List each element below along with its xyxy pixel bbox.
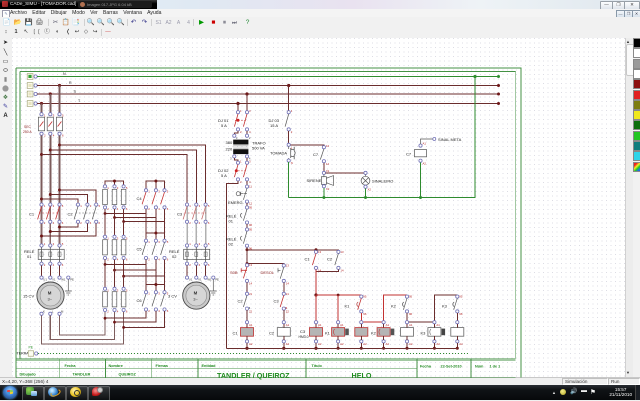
sheet frame outer border bbox=[16, 68, 521, 378]
svg-text:6: 6 bbox=[126, 207, 128, 211]
svg-text:1: 1 bbox=[44, 114, 46, 118]
node branch to C3 bank line c bbox=[40, 153, 43, 156]
resistor R1b bbox=[112, 185, 119, 211]
motor M1 PE terminal bbox=[65, 276, 74, 295]
svg-text:5 A: 5 A bbox=[221, 173, 227, 178]
svg-text:M: M bbox=[61, 309, 64, 313]
svg-text:13: 13 bbox=[249, 263, 253, 267]
wire neutral return green bbox=[289, 77, 475, 198]
svg-text:A1: A1 bbox=[409, 323, 413, 327]
svg-text:3: 3 bbox=[230, 157, 232, 161]
svg-text:500 VA: 500 VA bbox=[252, 146, 265, 151]
wire RELE01 to RELE02 contact bbox=[246, 224, 248, 228]
svg-text:EMERG.: EMERG. bbox=[228, 200, 244, 205]
svg-text:13: 13 bbox=[340, 250, 344, 254]
title block table frame bbox=[16, 359, 516, 378]
svg-text:HELO: HELO bbox=[352, 371, 372, 380]
svg-text:3: 3 bbox=[249, 109, 251, 113]
coil C7 timer bbox=[406, 142, 427, 166]
wire DJ02 right pole down bbox=[246, 181, 248, 185]
svg-text:N: N bbox=[63, 72, 66, 76]
svg-text:QUEIROZ: QUEIROZ bbox=[119, 372, 137, 376]
thermal overload relay RELE 01 bbox=[24, 242, 64, 267]
svg-text:A2: A2 bbox=[386, 342, 390, 346]
svg-text:Título: Título bbox=[312, 364, 323, 368]
rotor resistor bank 1 star bar bbox=[105, 180, 124, 187]
svg-text:PE: PE bbox=[215, 278, 219, 282]
resistor R1c bbox=[121, 185, 128, 211]
svg-text:1: 1 bbox=[107, 186, 109, 190]
contactor C4 star bar bbox=[146, 180, 165, 189]
wire DJ01 to trafo primary bbox=[234, 131, 247, 134]
svg-text:1: 1 bbox=[44, 242, 46, 246]
svg-text:A2: A2 bbox=[286, 342, 290, 346]
wire S to DJ01 pole2 bbox=[246, 94, 248, 111]
menu bar bbox=[0, 9, 640, 19]
node C7 coil neutral bbox=[419, 196, 422, 199]
svg-text:A1: A1 bbox=[423, 142, 427, 146]
wire drop to timer K1 coil bbox=[337, 295, 339, 321]
node rotor riser c bbox=[122, 326, 125, 329]
resistor R3c bbox=[121, 287, 128, 313]
svg-text:K1: K1 bbox=[325, 331, 331, 336]
wire holding branch to C1 aux bbox=[247, 249, 316, 251]
wire RELE01 to motor M1 bbox=[42, 265, 60, 276]
svg-text:6: 6 bbox=[126, 310, 128, 314]
svg-text:5: 5 bbox=[126, 236, 128, 240]
svg-text:01: 01 bbox=[229, 219, 234, 224]
svg-text:3: 3 bbox=[53, 242, 55, 246]
wire C7 coil to neutral bbox=[420, 162, 422, 197]
taskbar bbox=[0, 385, 640, 400]
wire branch to C2 pole 5 bbox=[60, 190, 97, 203]
wire socket neutral green bbox=[288, 162, 290, 197]
svg-text:1: 1 bbox=[240, 109, 242, 113]
wire A1 link pair2 bbox=[361, 321, 383, 323]
coil K3 timer bbox=[421, 321, 446, 349]
svg-text:14: 14 bbox=[286, 282, 290, 286]
svg-text:SINALEIRO: SINALEIRO bbox=[372, 179, 393, 184]
rail terminal S bbox=[27, 91, 37, 97]
node rotor riser b bbox=[113, 321, 116, 324]
wire jog R1c to C4 bbox=[124, 209, 165, 222]
svg-text:PE: PE bbox=[29, 346, 34, 350]
svg-text:Dibujado: Dibujado bbox=[20, 372, 37, 376]
svg-text:1: 1 bbox=[148, 291, 150, 295]
svg-text:2: 2 bbox=[148, 258, 150, 262]
svg-text:3: 3 bbox=[158, 291, 160, 295]
svg-text:14: 14 bbox=[340, 269, 344, 273]
svg-text:SINAL META: SINAL META bbox=[438, 137, 462, 142]
wire M1 rotor K loop bbox=[42, 312, 124, 344]
wire jog R1b to C4 bbox=[115, 209, 156, 218]
node coil K1 on return bus bbox=[337, 347, 340, 350]
wire C2 pole3 return bbox=[50, 223, 87, 231]
svg-text:13: 13 bbox=[326, 144, 330, 148]
node branch to C3 bank line a bbox=[58, 144, 61, 147]
svg-text:3~: 3~ bbox=[193, 296, 198, 301]
svg-text:380: 380 bbox=[226, 140, 233, 145]
svg-text:5: 5 bbox=[126, 186, 128, 190]
svg-text:TANDLER / QUEIROZ: TANDLER / QUEIROZ bbox=[217, 371, 290, 380]
svg-text:K1: K1 bbox=[345, 304, 351, 309]
svg-text:2: 2 bbox=[249, 136, 251, 140]
node C2 return b bbox=[49, 230, 52, 233]
wire fuse drop L1 bbox=[41, 104, 43, 113]
svg-text:C3: C3 bbox=[300, 329, 306, 334]
svg-text:A1: A1 bbox=[436, 323, 440, 327]
svg-text:95: 95 bbox=[459, 295, 463, 299]
contactor C5 contacts bbox=[137, 239, 169, 262]
rail terminal T bbox=[27, 101, 37, 107]
coil C3 HM3.0 bbox=[299, 321, 323, 349]
coil C4 aux bbox=[355, 321, 368, 349]
svg-text:2: 2 bbox=[240, 180, 242, 184]
svg-text:SIRENE: SIRENE bbox=[307, 178, 322, 183]
node jog R2a bbox=[104, 263, 107, 266]
wire rail S bbox=[37, 89, 500, 95]
svg-text:T: T bbox=[78, 99, 81, 103]
svg-text:2: 2 bbox=[80, 221, 82, 225]
svg-text:3: 3 bbox=[249, 160, 251, 164]
svg-text:4: 4 bbox=[249, 180, 251, 184]
lamp SINALEIRO bbox=[361, 175, 393, 192]
wire jog R1a to C4 bbox=[105, 209, 146, 214]
node jog R1a bbox=[104, 212, 107, 215]
wire holding column down bbox=[315, 270, 317, 296]
svg-text:2: 2 bbox=[189, 221, 191, 225]
svg-text:C2: C2 bbox=[269, 331, 275, 336]
contactor C4 contacts bbox=[137, 189, 169, 211]
svg-text:15 A: 15 A bbox=[270, 123, 278, 128]
contactor C2 main contacts bbox=[68, 203, 101, 225]
wire lamp to neutral bbox=[365, 188, 367, 197]
task buttons bbox=[22, 386, 44, 401]
svg-text:5: 5 bbox=[167, 190, 169, 194]
svg-text:02: 02 bbox=[229, 242, 234, 247]
wire main column L1 bbox=[41, 135, 43, 203]
wire K3 contact to coil row bbox=[456, 313, 458, 321]
node coil K2 on return bus bbox=[382, 347, 385, 350]
svg-text:5: 5 bbox=[208, 242, 210, 246]
wire resistor chain verticals bank1-bank2 bbox=[105, 214, 124, 236]
wire T to DJ01 pole1 bbox=[237, 104, 239, 111]
svg-text:6: 6 bbox=[99, 221, 101, 225]
svg-text:5: 5 bbox=[62, 242, 64, 246]
svg-text:5: 5 bbox=[62, 204, 64, 208]
svg-text:02: 02 bbox=[172, 254, 177, 259]
node C2 return a bbox=[58, 226, 61, 229]
svg-text:1: 1 bbox=[107, 236, 109, 240]
node rotor riser a bbox=[104, 317, 107, 320]
node sirene feed bbox=[322, 171, 325, 174]
node coil feed bus bbox=[314, 293, 317, 296]
svg-text:14: 14 bbox=[326, 162, 330, 166]
transformer TRAFO 500VA bbox=[226, 134, 266, 160]
svg-text:2: 2 bbox=[107, 258, 109, 262]
coil C6 aux bbox=[451, 321, 464, 349]
svg-text:TERRA: TERRA bbox=[17, 352, 30, 356]
node holding branch bbox=[246, 248, 249, 251]
svg-text:Firmas: Firmas bbox=[156, 364, 168, 368]
wire C2 pole5 return bbox=[42, 223, 97, 236]
wire RELE02 to motor M2 bbox=[187, 265, 206, 276]
wire branch line c to C3 bank bbox=[42, 155, 188, 204]
svg-text:C3: C3 bbox=[177, 212, 183, 217]
node C2 return c bbox=[40, 235, 43, 238]
contact C2 aux NC bbox=[238, 292, 253, 314]
svg-text:96: 96 bbox=[363, 312, 367, 316]
motor M2 PE terminal bbox=[210, 276, 219, 295]
wire branch to C2 pole 3 bbox=[50, 195, 87, 204]
node coil C3 on return bus bbox=[314, 347, 317, 350]
contact C7 NO bbox=[313, 144, 329, 166]
node lamp feed bbox=[364, 171, 367, 174]
svg-text:3: 3 bbox=[53, 114, 55, 118]
wire C2 aux return to column bbox=[316, 270, 338, 272]
svg-text:21: 21 bbox=[286, 292, 290, 296]
svg-text:4: 4 bbox=[158, 258, 160, 262]
start orb bbox=[3, 386, 17, 399]
svg-text:C2: C2 bbox=[238, 299, 244, 304]
svg-text:3: 3 bbox=[117, 186, 119, 190]
rail terminal R bbox=[27, 83, 37, 89]
svg-text:C1: C1 bbox=[29, 212, 35, 217]
wire main column L3 bbox=[59, 135, 61, 203]
svg-text:3: 3 bbox=[117, 236, 119, 240]
breaker DJ01 bbox=[218, 109, 251, 134]
wire C2 pole1 return bbox=[60, 223, 79, 227]
svg-text:R: R bbox=[69, 81, 72, 85]
svg-text:2: 2 bbox=[107, 310, 109, 314]
wire DESOL to C3 aux NC bbox=[283, 283, 285, 293]
coil K2 timer bbox=[371, 321, 394, 349]
node jog R1c bbox=[122, 220, 125, 223]
svg-text:L: L bbox=[52, 309, 54, 313]
wire drop to coil C3 bbox=[315, 295, 317, 321]
svg-text:3: 3 bbox=[90, 204, 92, 208]
wire coil return bus bbox=[227, 347, 458, 349]
wire rail N (green neutral bus) bbox=[37, 72, 500, 78]
svg-text:6: 6 bbox=[62, 134, 64, 138]
wire main column L2 bbox=[49, 135, 51, 203]
svg-text:C7: C7 bbox=[406, 152, 412, 157]
node jog R2c bbox=[122, 275, 125, 278]
resistor R2a bbox=[103, 235, 110, 261]
coil C5 aux bbox=[401, 321, 414, 349]
svg-text:A1: A1 bbox=[386, 323, 390, 327]
svg-text:2: 2 bbox=[240, 130, 242, 134]
earth terminal TERRA bbox=[17, 346, 38, 357]
svg-text:6: 6 bbox=[167, 258, 169, 262]
svg-text:6: 6 bbox=[126, 258, 128, 262]
svg-text:A2: A2 bbox=[423, 162, 427, 166]
node branch to C2 bank line b bbox=[49, 193, 52, 196]
svg-text:5: 5 bbox=[62, 114, 64, 118]
node drop timer K1 bbox=[337, 294, 340, 297]
svg-text:4: 4 bbox=[199, 221, 201, 225]
svg-text:1: 1 bbox=[107, 288, 109, 292]
node lamp neutral bbox=[364, 196, 367, 199]
wire branch to C2 aux NO bbox=[316, 249, 338, 252]
rail terminal N bbox=[27, 74, 37, 80]
svg-text:3~: 3~ bbox=[48, 296, 53, 301]
svg-text:W1: W1 bbox=[61, 278, 66, 282]
wire M1 rotor L loop bbox=[50, 312, 114, 340]
svg-text:4: 4 bbox=[117, 310, 119, 314]
svg-text:TANDLER: TANDLER bbox=[73, 372, 91, 376]
svg-text:96: 96 bbox=[249, 223, 253, 227]
svg-text:4: 4 bbox=[117, 207, 119, 211]
pushbutton S0B stop bbox=[230, 263, 253, 285]
sheet frame inner border bbox=[20, 72, 516, 359]
svg-text:S: S bbox=[74, 89, 77, 93]
svg-text:V1: V1 bbox=[52, 278, 56, 282]
contactor C6 top bar bbox=[146, 283, 165, 291]
wire chain junction bbox=[246, 247, 248, 263]
contactor C1 main contacts bbox=[29, 203, 64, 244]
wire C7 coil signal input SINAL META bbox=[421, 137, 462, 144]
svg-text:TOMADA: TOMADA bbox=[270, 151, 287, 156]
svg-text:K2: K2 bbox=[391, 304, 397, 309]
left tool column bbox=[0, 38, 13, 377]
svg-text:22: 22 bbox=[249, 309, 253, 313]
contactor C6 contacts bbox=[137, 291, 169, 314]
svg-text:C3: C3 bbox=[274, 299, 280, 304]
svg-text:13: 13 bbox=[318, 250, 322, 254]
svg-text:A1: A1 bbox=[340, 323, 344, 327]
svg-text:A2: A2 bbox=[459, 342, 463, 346]
svg-text:2: 2 bbox=[44, 134, 46, 138]
svg-text:1: 1 bbox=[148, 190, 150, 194]
svg-text:C6: C6 bbox=[137, 298, 143, 303]
node R-fuse tap bbox=[58, 84, 61, 87]
label fuse rating SEC 250A bbox=[23, 125, 32, 134]
svg-text:N: N bbox=[291, 161, 293, 165]
svg-text:6: 6 bbox=[62, 263, 64, 267]
svg-text:1: 1 bbox=[189, 204, 191, 208]
svg-text:2: 2 bbox=[44, 263, 46, 267]
svg-text:X2: X2 bbox=[368, 188, 372, 192]
svg-text:4: 4 bbox=[53, 263, 55, 267]
svg-text:95: 95 bbox=[249, 206, 253, 210]
svg-text:1: 1 bbox=[148, 240, 150, 244]
svg-text:4: 4 bbox=[53, 134, 55, 138]
svg-text:250 A: 250 A bbox=[23, 130, 32, 134]
wire fuse drop L2 bbox=[49, 94, 51, 113]
node coil C1 on return bus bbox=[245, 347, 248, 350]
siren SIRENE bbox=[307, 169, 334, 191]
contact C3 aux NC bbox=[274, 292, 290, 314]
tray icons bbox=[552, 390, 556, 395]
node branch to C2 bank line c bbox=[40, 198, 43, 201]
svg-text:96: 96 bbox=[459, 312, 463, 316]
svg-text:95: 95 bbox=[363, 295, 367, 299]
contactor C3 main contacts bbox=[177, 203, 210, 244]
wire rail R bbox=[37, 81, 500, 87]
wire branch line b to C3 bank bbox=[50, 150, 196, 203]
fuse F3 bbox=[56, 113, 64, 138]
svg-text:Núm: Núm bbox=[475, 365, 484, 369]
node T tap DJ01 pole1 bbox=[236, 102, 239, 105]
svg-text:95: 95 bbox=[249, 228, 253, 232]
svg-text:A2: A2 bbox=[318, 342, 322, 346]
svg-text:M: M bbox=[48, 290, 52, 295]
svg-text:Fecha: Fecha bbox=[420, 365, 432, 369]
node branch to C2 bank line a bbox=[58, 189, 61, 192]
svg-text:C5: C5 bbox=[137, 247, 143, 252]
wire coil feed bus segment 1 bbox=[316, 294, 361, 296]
wire C6 pole1 to rotor riser a bbox=[105, 311, 146, 318]
wire branch to DESOL bbox=[247, 263, 284, 265]
svg-text:A2: A2 bbox=[249, 342, 253, 346]
svg-text:A2: A2 bbox=[340, 342, 344, 346]
wire rail T bbox=[37, 99, 500, 105]
wire A1 link pair3 bbox=[407, 321, 434, 323]
thermal overload relay RELE 02 bbox=[169, 242, 210, 267]
resistor R1a bbox=[103, 185, 110, 211]
svg-text:2: 2 bbox=[44, 221, 46, 225]
svg-text:1: 1 bbox=[291, 109, 293, 113]
svg-text:A2: A2 bbox=[436, 342, 440, 346]
wire resistor chain verticals bank2-bank3 bbox=[105, 264, 124, 287]
svg-text:96: 96 bbox=[409, 312, 413, 316]
node coil C4 on return bus bbox=[360, 347, 363, 350]
wire branch to C2 pole 1 bbox=[42, 199, 79, 203]
node DESOL branch bbox=[246, 262, 249, 265]
svg-text:W1: W1 bbox=[207, 278, 212, 282]
svg-text:4: 4 bbox=[158, 309, 160, 313]
svg-text:U1: U1 bbox=[43, 278, 47, 282]
svg-text:22: 22 bbox=[286, 309, 290, 313]
svg-text:1: 1 bbox=[189, 242, 191, 246]
svg-text:1: 1 bbox=[240, 160, 242, 164]
svg-text:2: 2 bbox=[148, 207, 150, 211]
svg-text:3: 3 bbox=[158, 240, 160, 244]
svg-text:6: 6 bbox=[167, 207, 169, 211]
svg-text:K3: K3 bbox=[421, 331, 427, 336]
colour palette bbox=[633, 38, 640, 378]
svg-text:M: M bbox=[194, 290, 198, 295]
svg-text:4: 4 bbox=[90, 221, 92, 225]
svg-text:3: 3 bbox=[199, 242, 201, 246]
fuse F2 bbox=[47, 113, 55, 138]
contact RELE02 95-96 bbox=[226, 228, 253, 251]
wire branch line a to C3 bank bbox=[60, 145, 206, 203]
resistor R3b bbox=[112, 287, 119, 313]
svg-text:14: 14 bbox=[249, 282, 253, 286]
coil K1 timer bbox=[325, 321, 349, 349]
contact C2 aux NO (parallel) bbox=[327, 250, 344, 273]
svg-text:DESOL: DESOL bbox=[261, 270, 275, 275]
svg-text:1 de 1: 1 de 1 bbox=[490, 365, 501, 369]
contactor C5 top bar bbox=[146, 232, 165, 240]
node N rail drop bbox=[473, 75, 476, 78]
wire C5-C6 column verticals bbox=[146, 264, 165, 290]
svg-text:13: 13 bbox=[286, 264, 290, 268]
node coil C5 on return bus bbox=[406, 347, 409, 350]
svg-text:220: 220 bbox=[226, 147, 233, 152]
svg-text:6: 6 bbox=[167, 309, 169, 313]
wire K1 contact to coil row bbox=[360, 313, 362, 321]
wire EMERG to RELE01 contact bbox=[246, 203, 248, 206]
svg-text:A2: A2 bbox=[363, 342, 367, 346]
toolbar row 2 bbox=[0, 28, 640, 39]
svg-text:6: 6 bbox=[208, 221, 210, 225]
node T-fuse tap bbox=[40, 102, 43, 105]
wire riser to bus segment 3 bbox=[434, 295, 457, 321]
svg-text:3: 3 bbox=[117, 288, 119, 292]
